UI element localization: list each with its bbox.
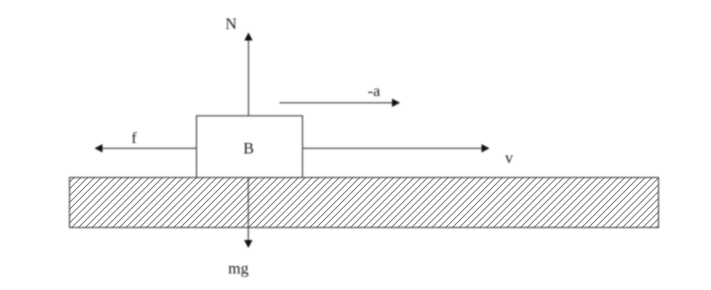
normal force arrow N (244, 33, 252, 117)
svg-text:f: f (131, 130, 137, 147)
block B (197, 116, 303, 178)
ground surface hatched fill (70, 178, 659, 228)
ground surface outline (70, 178, 659, 228)
friction arrow f (95, 144, 197, 152)
svg-text:v: v (505, 150, 513, 167)
weight arrow mg (244, 178, 252, 249)
velocity arrow v (303, 144, 490, 152)
svg-text:mg: mg (228, 260, 248, 277)
svg-text:-a: -a (368, 83, 380, 100)
deceleration arrow -a (280, 99, 401, 107)
svg-text:B: B (243, 141, 254, 158)
svg-text:N: N (225, 16, 237, 33)
